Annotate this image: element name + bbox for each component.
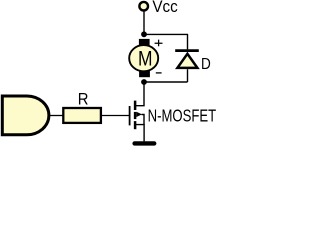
MOSFET Q1: gate line [129,106,131,125]
wire top rail to diode branch [144,34,188,49]
motor M: top brush [139,39,150,45]
resistor R [63,108,101,123]
svg-text:Vcc: Vcc [152,0,177,16]
motor M: bottom brush [139,71,150,77]
motor M: body [129,45,158,71]
ground [135,141,155,145]
AND gate [2,96,49,135]
MOSFET Q1: body arrow [136,112,142,117]
node: bottom junction [141,79,147,85]
wire bottom rail [144,81,188,83]
svg-text:N-MOSFET: N-MOSFET [148,106,216,126]
svg-text:R: R [78,91,89,109]
diode D: anode triangle [177,54,197,68]
Vcc terminal [139,2,148,11]
MOSFET Q1: source tap [136,125,144,142]
wire Vcc down to top junction [143,11,145,34]
svg-text:M: M [138,47,153,70]
wire junction down to MOSFET drain [136,82,144,106]
MOSFET Q1: channel top segment [134,101,137,110]
motor - polarity mark [156,72,162,74]
node: top junction [141,31,147,37]
MOSFET Q1: channel middle segment [134,112,137,119]
wire diode anode to bottom rail [187,69,189,82]
MOSFET Q1: channel bottom segment [134,121,137,129]
wire resistor to MOSFET gate [101,115,130,117]
motor + polarity mark [155,40,163,47]
wire AND gate output to resistor [49,115,63,117]
svg-text:D: D [201,55,211,73]
MOSFET Q1: body-source connection [142,114,145,125]
diode D: cathode bar [175,49,199,52]
